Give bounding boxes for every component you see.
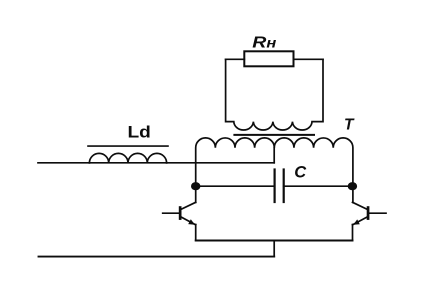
svg-text:Ld: Ld: [128, 123, 151, 141]
svg-text:T: T: [344, 116, 355, 133]
svg-text:Rн: Rн: [252, 33, 276, 51]
svg-text:C: C: [294, 164, 307, 182]
